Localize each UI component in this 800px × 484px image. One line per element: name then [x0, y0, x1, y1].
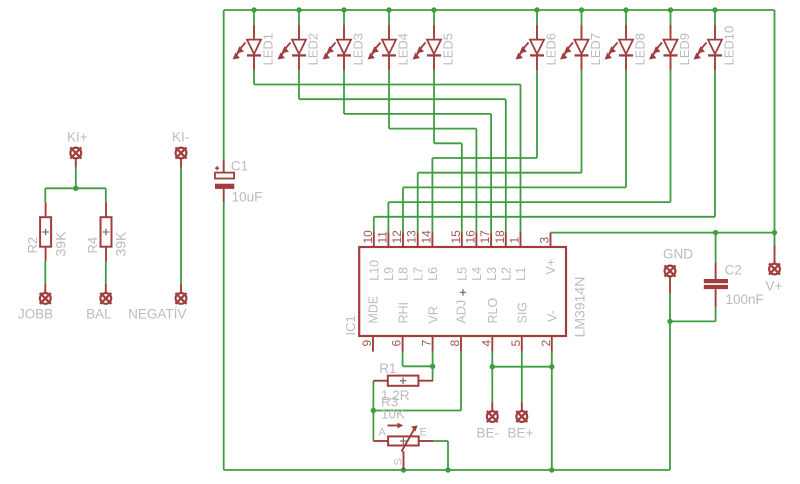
svg-text:R1: R1: [379, 361, 396, 376]
svg-text:1: 1: [508, 237, 522, 244]
svg-text:12: 12: [390, 230, 404, 244]
svg-text:9: 9: [360, 340, 374, 347]
svg-text:RLO: RLO: [486, 298, 500, 324]
svg-text:ADJ: ADJ: [455, 300, 469, 324]
svg-text:LED9: LED9: [677, 33, 692, 66]
svg-text:NEGATÍV: NEGATÍV: [128, 307, 186, 322]
svg-text:L9: L9: [382, 267, 396, 281]
svg-text:R4: R4: [85, 237, 100, 254]
svg-text:17: 17: [478, 230, 492, 244]
svg-text:BE+: BE+: [508, 426, 534, 441]
svg-text:IC1: IC1: [343, 315, 358, 335]
svg-text:VR: VR: [426, 306, 440, 323]
svg-text:BE-: BE-: [477, 426, 500, 441]
svg-text:V+: V+: [544, 259, 558, 275]
svg-text:8: 8: [448, 340, 462, 347]
svg-text:R2: R2: [25, 237, 40, 254]
svg-text:100nF: 100nF: [726, 292, 764, 307]
svg-text:10K: 10K: [381, 407, 405, 422]
svg-text:10uF: 10uF: [232, 190, 263, 205]
svg-text:13: 13: [405, 230, 419, 244]
svg-text:MDE: MDE: [367, 296, 381, 324]
svg-text:39K: 39K: [52, 231, 68, 257]
svg-text:16: 16: [463, 230, 477, 244]
svg-text:KI+: KI+: [67, 130, 88, 145]
svg-text:V-: V-: [545, 310, 559, 322]
svg-text:L5: L5: [456, 267, 470, 281]
svg-text:LED4: LED4: [395, 33, 410, 66]
svg-text:GND: GND: [663, 247, 693, 262]
svg-text:10: 10: [361, 230, 375, 244]
svg-text:C2: C2: [725, 263, 742, 278]
svg-text:7: 7: [420, 340, 434, 347]
svg-text:KI-: KI-: [172, 130, 189, 145]
svg-text:LM3914N: LM3914N: [571, 277, 587, 338]
svg-text:V+: V+: [766, 279, 783, 294]
svg-text:4: 4: [479, 340, 493, 347]
svg-text:3: 3: [538, 237, 552, 244]
svg-text:L1: L1: [514, 267, 528, 281]
svg-text:L2: L2: [500, 267, 514, 281]
svg-text:LED7: LED7: [588, 33, 603, 66]
svg-text:LED1: LED1: [260, 33, 275, 66]
svg-text:L10: L10: [368, 260, 382, 281]
svg-text:RHI: RHI: [396, 302, 410, 324]
svg-text:15: 15: [449, 230, 463, 244]
svg-text:LED6: LED6: [543, 33, 558, 66]
svg-text:L3: L3: [485, 267, 499, 281]
svg-text:E: E: [420, 427, 427, 439]
svg-text:11: 11: [375, 231, 389, 244]
svg-text:LED8: LED8: [632, 33, 647, 66]
svg-text:BAL: BAL: [86, 307, 112, 322]
svg-text:LED5: LED5: [440, 33, 455, 66]
svg-text:LED2: LED2: [305, 33, 320, 66]
svg-text:S: S: [393, 458, 405, 465]
svg-text:14: 14: [419, 230, 433, 244]
svg-text:SIG: SIG: [516, 302, 530, 324]
svg-text:18: 18: [493, 230, 507, 244]
svg-text:6: 6: [390, 340, 404, 347]
svg-text:L4: L4: [470, 267, 484, 281]
svg-text:L7: L7: [411, 267, 425, 281]
svg-text:L8: L8: [397, 267, 411, 281]
svg-text:LED10: LED10: [721, 26, 736, 66]
svg-text:L6: L6: [426, 267, 440, 281]
svg-text:5: 5: [509, 340, 523, 347]
svg-text:A: A: [379, 427, 387, 439]
svg-text:39K: 39K: [113, 231, 129, 257]
svg-text:JOBB: JOBB: [18, 307, 53, 322]
svg-text:LED3: LED3: [350, 33, 365, 66]
svg-text:C1: C1: [231, 159, 248, 174]
svg-text:2: 2: [539, 340, 553, 347]
